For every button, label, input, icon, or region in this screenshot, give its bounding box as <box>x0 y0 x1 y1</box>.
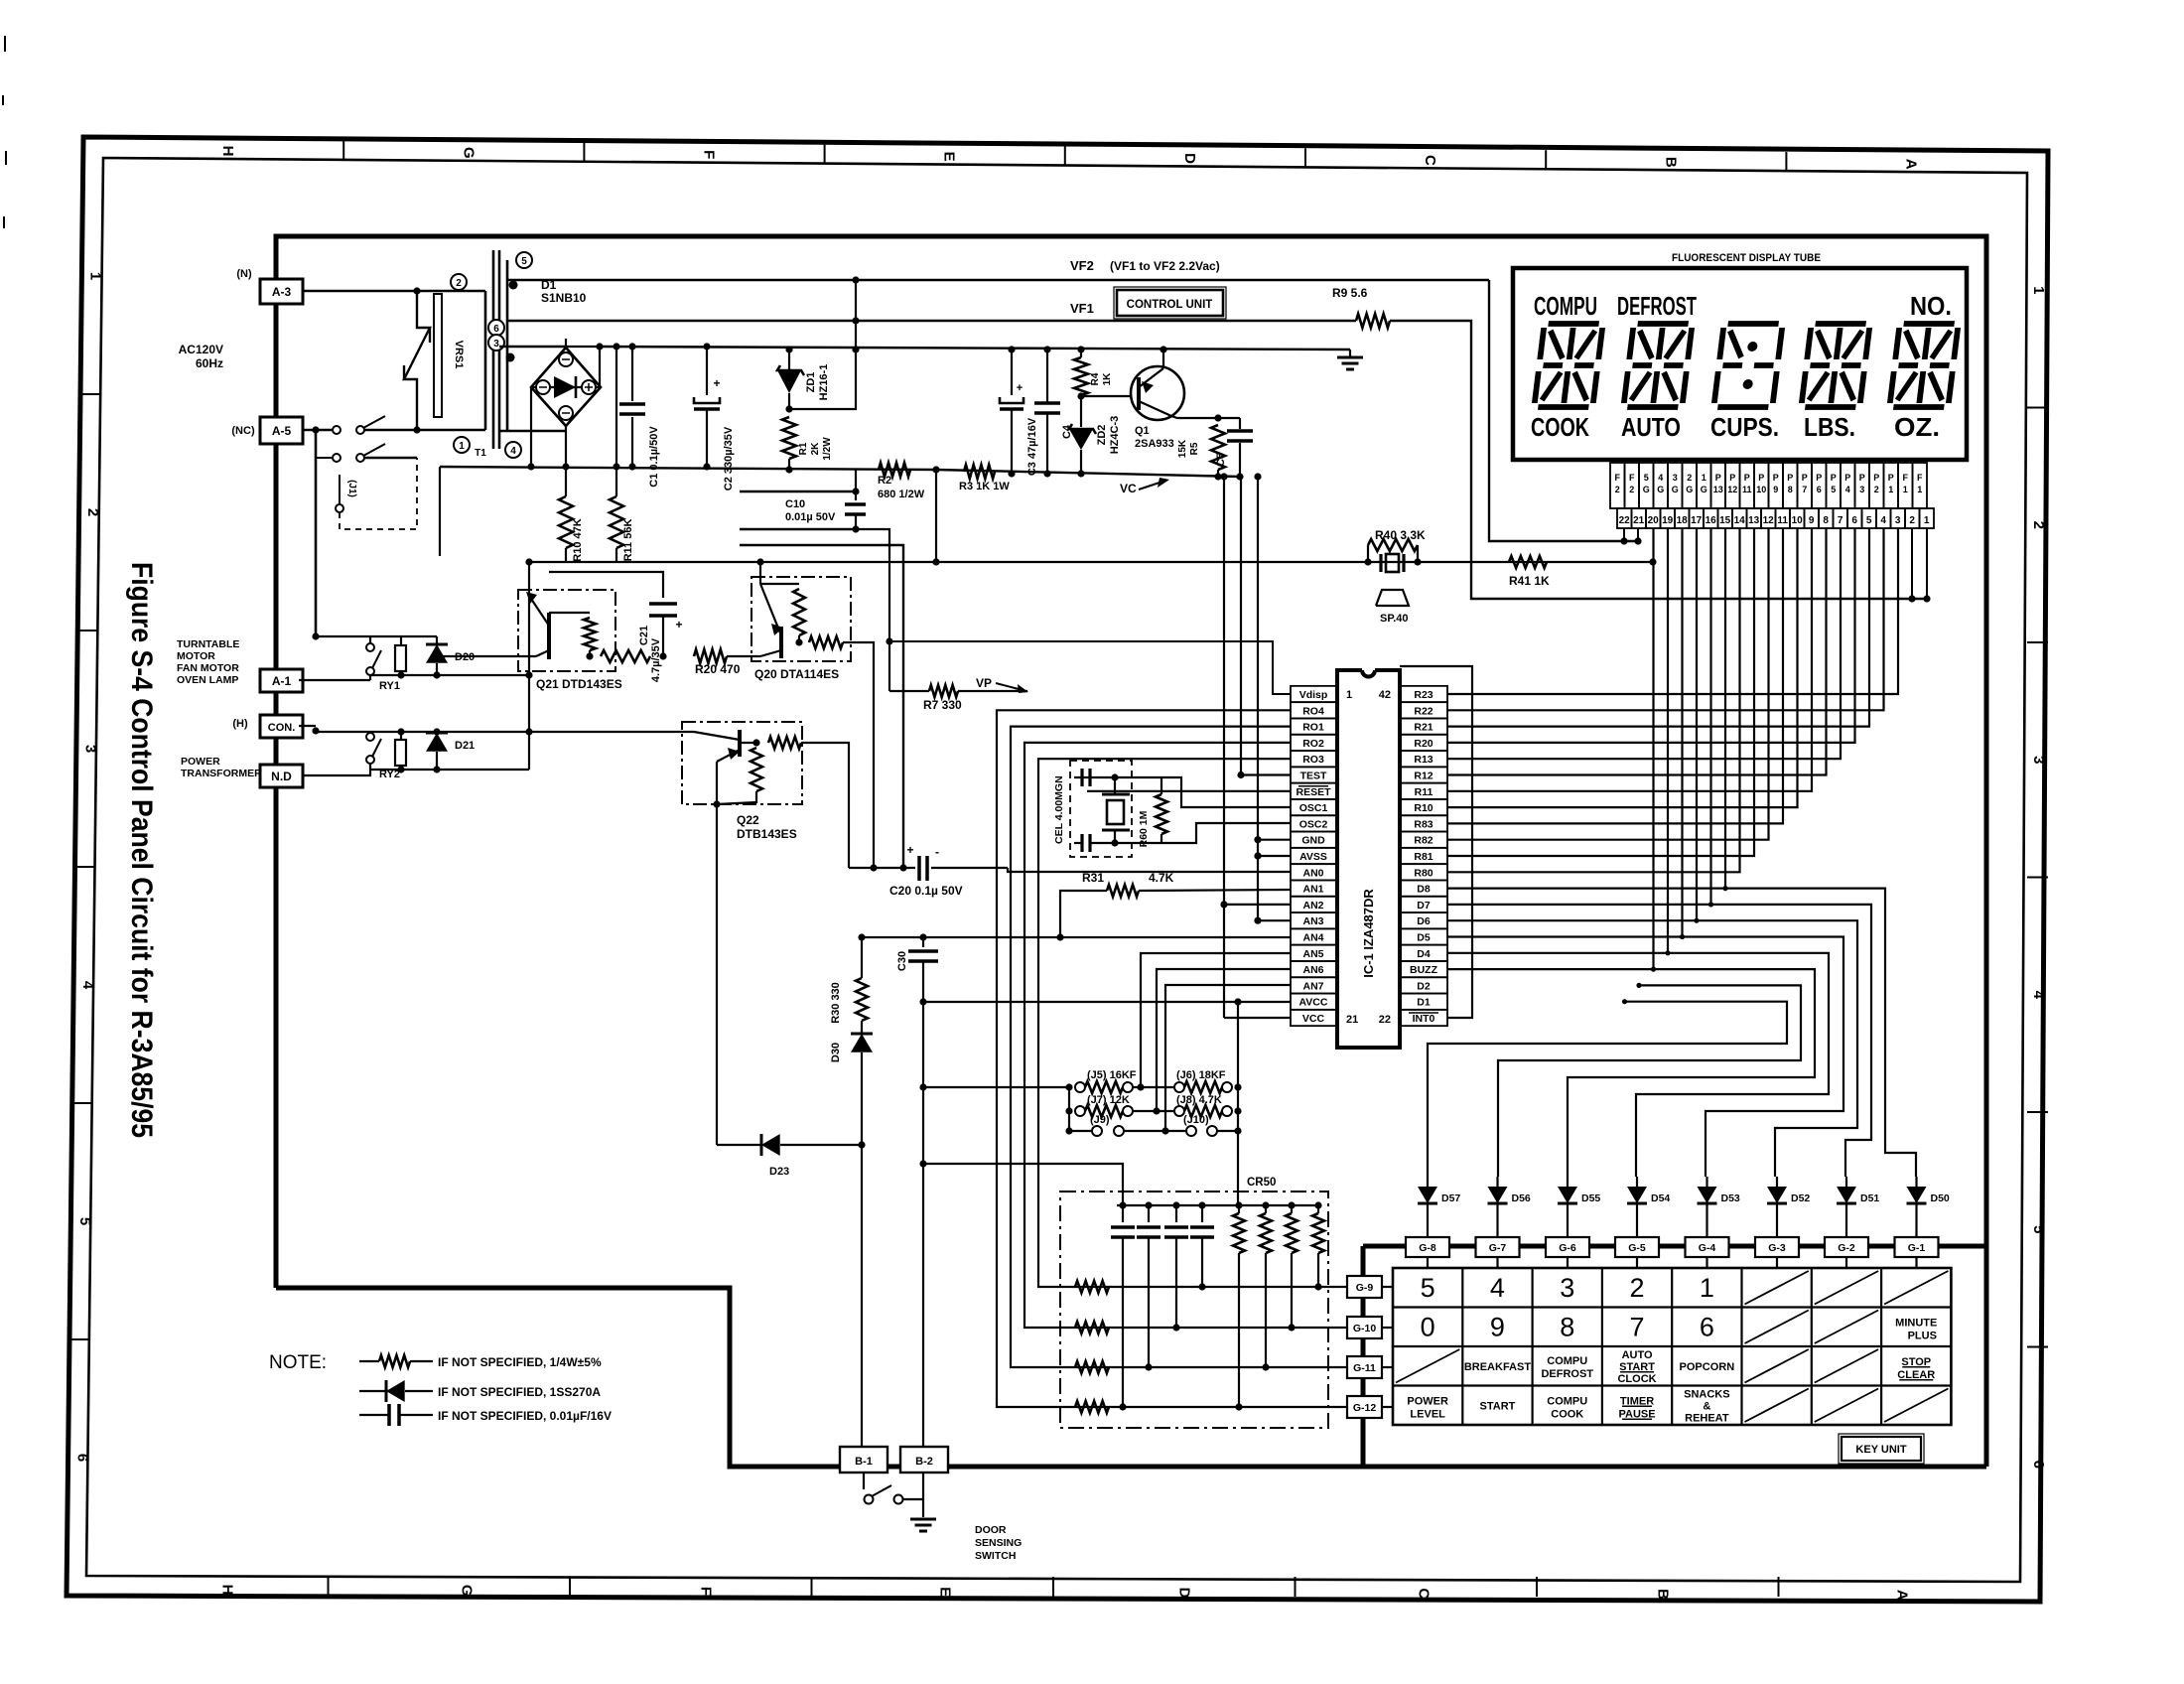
svg-text:4: 4 <box>510 446 516 457</box>
svg-text:H: H <box>219 1585 236 1596</box>
svg-text:Q21 DTD143ES: Q21 DTD143ES <box>536 677 622 691</box>
svg-text:TEST: TEST <box>1300 771 1327 782</box>
svg-text:AN3: AN3 <box>1302 915 1323 927</box>
wire RY2 bottom bus <box>370 769 529 771</box>
svg-text:DTB143ES: DTB143ES <box>737 827 797 841</box>
svg-text:G-6: G-6 <box>1559 1242 1576 1254</box>
transformer T1 primary winding <box>484 291 487 430</box>
door sensing switch <box>863 1473 865 1489</box>
wire bus IC right pins to display pins <box>1447 528 1898 694</box>
svg-text:FAN MOTOR: FAN MOTOR <box>177 662 239 674</box>
svg-text:STOP: STOP <box>1901 1356 1931 1368</box>
svg-text:A: A <box>1903 159 1920 170</box>
svg-text:1/2W: 1/2W <box>822 437 833 461</box>
svg-text:20: 20 <box>1648 515 1660 526</box>
svg-text:7: 7 <box>1838 515 1843 526</box>
svg-text:D55: D55 <box>1581 1193 1600 1204</box>
svg-text:LBS.: LBS. <box>1804 412 1855 442</box>
svg-text:R40 3.3K: R40 3.3K <box>1375 528 1426 542</box>
wire J7-J8 node to AN6 <box>1133 1110 1174 1112</box>
svg-text:RO3: RO3 <box>1302 754 1324 766</box>
svg-text:OSC1: OSC1 <box>1299 802 1328 814</box>
resistor network CR50 dashed box <box>1060 1192 1328 1428</box>
svg-text:CR50: CR50 <box>1247 1177 1276 1189</box>
svg-text:B-2: B-2 <box>915 1456 933 1468</box>
svg-text:P: P <box>1859 473 1865 483</box>
svg-text:RO1: RO1 <box>1302 722 1324 734</box>
wire Q22 output to C20 line <box>801 743 849 868</box>
svg-text:5: 5 <box>1831 485 1836 494</box>
svg-text:G-12: G-12 <box>1353 1402 1377 1414</box>
terminal N.D <box>260 765 303 787</box>
svg-text:F: F <box>1629 473 1635 483</box>
svg-text:CON.: CON. <box>268 722 296 734</box>
svg-text:LEVEL: LEVEL <box>1410 1408 1445 1420</box>
svg-text:18: 18 <box>1677 515 1689 526</box>
note resistor symbol <box>359 1360 379 1362</box>
svg-text:IF NOT SPECIFIED, 0.01µF/16V: IF NOT SPECIFIED, 0.01µF/16V <box>438 1409 612 1423</box>
svg-text:D54: D54 <box>1651 1193 1670 1204</box>
svg-text:4.7µ/35V: 4.7µ/35V <box>650 637 662 682</box>
display digit 3 <box>1713 324 1782 407</box>
svg-text:TRANSFORMER: TRANSFORMER <box>181 768 262 779</box>
svg-text:Q22: Q22 <box>737 813 759 827</box>
svg-text:22: 22 <box>1619 515 1631 526</box>
svg-text:(J7) 12K: (J7) 12K <box>1087 1094 1130 1106</box>
wire A-3 to transformer <box>303 290 485 293</box>
svg-text:C10: C10 <box>785 498 805 510</box>
svg-text:DEFROST: DEFROST <box>1541 1368 1593 1380</box>
grid driver boxes G-8 to G-1 <box>1406 1237 1449 1257</box>
svg-text:2: 2 <box>2030 521 2047 529</box>
svg-text:SNACKS: SNACKS <box>1684 1388 1729 1400</box>
note diode symbol <box>359 1390 389 1392</box>
crystal top wire and capacitor <box>1074 776 1107 778</box>
wire AN4 to R30 column <box>861 937 863 978</box>
svg-text:4: 4 <box>1658 473 1663 483</box>
svg-text:19: 19 <box>1662 515 1674 526</box>
svg-text:G-8: G-8 <box>1419 1242 1436 1254</box>
svg-text:R9 5.6: R9 5.6 <box>1332 286 1368 300</box>
svg-text:VC: VC <box>1120 482 1137 495</box>
svg-text:F: F <box>698 1587 715 1596</box>
svg-text:2: 2 <box>1687 473 1692 483</box>
VC lower rail <box>440 467 936 470</box>
svg-text:8: 8 <box>1823 515 1829 526</box>
svg-text:5: 5 <box>521 256 527 267</box>
ceramic resonator SP40 element <box>1379 554 1382 572</box>
svg-text:AVCC: AVCC <box>1299 997 1328 1009</box>
terminal circle 5 <box>516 252 532 268</box>
svg-text:6: 6 <box>493 324 499 335</box>
wire bridge left vertex down <box>530 387 532 467</box>
resistor R5 15K <box>1214 414 1221 421</box>
svg-text:COMPU: COMPU <box>1547 1395 1587 1407</box>
wire bus RO pins to key rows <box>997 710 1347 1407</box>
svg-text:(J6) 18KF: (J6) 18KF <box>1176 1069 1226 1081</box>
wire display pin 22 to VF2 <box>1623 528 1625 541</box>
svg-text:R10: R10 <box>1414 802 1433 814</box>
wire VF2 rail <box>507 279 1489 281</box>
svg-text:START: START <box>1480 1400 1516 1412</box>
vertical bus VC to VCC <box>1223 477 1225 1018</box>
diode D30 <box>861 1021 863 1035</box>
svg-text:F: F <box>701 150 718 159</box>
jumper J9 open <box>1092 1126 1102 1136</box>
svg-text:5: 5 <box>1421 1273 1435 1303</box>
svg-text:VCC: VCC <box>1302 1013 1325 1025</box>
svg-text:3: 3 <box>493 339 499 350</box>
wire display pin 21 to VF2 line <box>1637 528 1639 541</box>
CR50 capacitors <box>1122 1205 1124 1222</box>
svg-text:BREAKFAST: BREAKFAST <box>1464 1361 1532 1373</box>
svg-text:OZ.: OZ. <box>1894 412 1940 442</box>
bridge rectifier D1 S1NB10 <box>531 348 601 426</box>
svg-text:INT0: INT0 <box>1413 1013 1435 1025</box>
svg-text:15: 15 <box>1719 515 1731 526</box>
svg-text:42: 42 <box>1379 689 1391 701</box>
svg-text:5: 5 <box>2030 1225 2047 1233</box>
wire C10 side taps <box>740 491 856 492</box>
svg-text:6: 6 <box>1851 515 1857 526</box>
terminal B-1 <box>840 1447 887 1473</box>
speaker SP.40 <box>1376 590 1409 606</box>
svg-text:D: D <box>1176 1588 1193 1599</box>
resistor R3 1K 1W <box>964 465 995 479</box>
jumper left bus <box>1068 1087 1070 1131</box>
svg-text:AUTO: AUTO <box>1622 1349 1653 1361</box>
svg-text:21: 21 <box>1633 515 1645 526</box>
svg-text:Vdisp: Vdisp <box>1299 689 1328 701</box>
svg-text:C1 0.1µ/50V: C1 0.1µ/50V <box>648 426 660 488</box>
svg-text:1: 1 <box>1346 689 1352 701</box>
CR50 resistors <box>1238 1205 1240 1213</box>
svg-text:(N): (N) <box>236 268 252 280</box>
svg-text:AC120V: AC120V <box>179 343 223 356</box>
svg-text:G-5: G-5 <box>1628 1242 1646 1254</box>
svg-text:1: 1 <box>1903 485 1908 494</box>
capacitor C10 0.01u 50V <box>855 470 857 500</box>
svg-text:G-9: G-9 <box>1356 1282 1374 1294</box>
svg-text:SP.40: SP.40 <box>1380 613 1409 625</box>
svg-text:C: C <box>1416 1588 1433 1599</box>
label KEY UNIT box <box>1842 1437 1921 1461</box>
svg-text:KEY UNIT: KEY UNIT <box>1855 1444 1906 1456</box>
wire INT0 stub <box>1400 666 1472 1018</box>
svg-text:D56: D56 <box>1512 1193 1531 1204</box>
svg-text:D30: D30 <box>830 1043 842 1062</box>
relay RY2 coil <box>400 732 402 740</box>
crystal bottom wire and capacitor <box>1074 842 1082 844</box>
rail to RY1 <box>316 635 437 637</box>
svg-text:D53: D53 <box>1721 1193 1740 1204</box>
svg-text:(NC): (NC) <box>231 425 255 437</box>
svg-text:4: 4 <box>1490 1273 1505 1303</box>
svg-text:RESET: RESET <box>1296 786 1331 798</box>
svg-text:P: P <box>1744 473 1750 483</box>
svg-text:6: 6 <box>74 1454 91 1462</box>
wire N.D to RY2 <box>303 764 370 775</box>
zener diode ZD1 HZ16-1 <box>788 350 790 369</box>
svg-text:12: 12 <box>1763 515 1775 526</box>
capacitor C1 0.1u/50V <box>631 347 633 401</box>
svg-text:B: B <box>1662 157 1679 168</box>
resistor R9 5.6 <box>1356 314 1390 328</box>
wire VF1 rail <box>507 320 1356 322</box>
svg-text:D7: D7 <box>1417 900 1431 912</box>
svg-text:P: P <box>1802 473 1808 483</box>
wire RESET <box>1087 790 1291 792</box>
svg-text:G: G <box>1701 485 1707 494</box>
svg-text:13: 13 <box>1748 515 1760 526</box>
svg-text:R7 330: R7 330 <box>923 698 962 712</box>
terminal circle 3 <box>488 335 504 351</box>
svg-text:R21: R21 <box>1414 722 1433 734</box>
diode D20 <box>436 636 438 646</box>
key row series resistors <box>1075 1401 1109 1413</box>
svg-text:G-3: G-3 <box>1768 1242 1786 1254</box>
svg-text:PLUS: PLUS <box>1908 1330 1937 1341</box>
wire GND <box>1258 839 1291 841</box>
svg-text:R22: R22 <box>1414 705 1433 717</box>
wire AN3 <box>1258 919 1291 921</box>
terminal A-5 <box>260 417 303 444</box>
wire transformer to bridge bottom <box>499 430 566 432</box>
svg-text:7: 7 <box>1630 1312 1645 1341</box>
svg-text:D23: D23 <box>769 1166 789 1178</box>
jumper right bus <box>1237 1002 1239 1205</box>
jumper J5 16KF <box>1075 1082 1085 1092</box>
svg-text:G-2: G-2 <box>1838 1242 1855 1254</box>
wire VF2 drop to display pin 22 <box>1489 280 1638 541</box>
vertical bus C5 to TEST <box>1240 477 1242 775</box>
svg-text:11: 11 <box>1777 515 1788 526</box>
wire VF1 to display pin 1 <box>1390 321 1927 599</box>
svg-text:C20 0.1µ 50V: C20 0.1µ 50V <box>889 884 963 898</box>
svg-text:GND: GND <box>1301 835 1325 847</box>
transformer polarity dots <box>509 281 518 290</box>
svg-text:(VF1 to VF2 2.2Vac): (VF1 to VF2 2.2Vac) <box>1110 259 1220 273</box>
svg-text:R1: R1 <box>798 442 809 455</box>
svg-text:A-1: A-1 <box>272 674 292 688</box>
svg-text:G-7: G-7 <box>1489 1242 1507 1254</box>
svg-text:CUPS.: CUPS. <box>1710 412 1779 442</box>
svg-text:AUTO: AUTO <box>1621 412 1681 442</box>
svg-text:5: 5 <box>76 1217 93 1225</box>
jumper J6 18KF <box>1174 1082 1184 1092</box>
svg-text:R30 330: R30 330 <box>830 982 842 1024</box>
wire Q21 to C21 top <box>549 572 663 598</box>
svg-text:D6: D6 <box>1417 915 1431 927</box>
svg-text:SENSING: SENSING <box>975 1537 1022 1549</box>
svg-text:2: 2 <box>1630 1273 1645 1303</box>
svg-text:COOK: COOK <box>1531 412 1589 442</box>
terminal circle 6 <box>488 320 504 336</box>
svg-text:AN6: AN6 <box>1302 964 1323 976</box>
svg-text:ZD1: ZD1 <box>805 372 817 393</box>
svg-text:4: 4 <box>1845 485 1850 494</box>
IC left pin boxes <box>1291 686 1337 702</box>
svg-text:+: + <box>906 843 913 857</box>
svg-text:8: 8 <box>1560 1312 1574 1341</box>
wire Q22 emitter down to D23 <box>716 804 718 1145</box>
IC right pin boxes <box>1400 686 1447 702</box>
svg-text:D1: D1 <box>1417 997 1431 1009</box>
svg-text:AN4: AN4 <box>1302 932 1323 944</box>
relay RY1 contact <box>299 679 370 681</box>
svg-text:D51: D51 <box>1860 1193 1879 1204</box>
svg-text:(H): (H) <box>232 718 248 730</box>
wire A-5 to transformer <box>303 429 332 432</box>
svg-text:D8: D8 <box>1417 884 1431 896</box>
resistor R4 1K <box>1080 350 1082 357</box>
svg-text:A-5: A-5 <box>272 424 292 438</box>
svg-text:-: - <box>935 845 939 859</box>
svg-text:(J5) 16KF: (J5) 16KF <box>1087 1069 1137 1081</box>
svg-text:IC-1 IZA487DR: IC-1 IZA487DR <box>1361 889 1376 978</box>
svg-text:R20: R20 <box>1414 738 1433 750</box>
svg-text:HZ4C-3: HZ4C-3 <box>1109 416 1121 455</box>
wire R4 to Q1 base <box>1081 395 1132 397</box>
svg-text:NOTE:: NOTE: <box>269 1352 327 1373</box>
CON rail to Q22 base <box>316 731 694 733</box>
svg-text:R60 1M: R60 1M <box>1138 810 1150 847</box>
svg-text:VF2: VF2 <box>1070 258 1094 273</box>
resistor R11 56K <box>615 347 617 496</box>
svg-text:5: 5 <box>1866 515 1872 526</box>
svg-text:3: 3 <box>1673 473 1678 483</box>
svg-text:(J9): (J9) <box>1090 1114 1110 1126</box>
wire Q21 emitter vertical <box>528 562 530 596</box>
display pin connector upper row <box>1610 463 1625 508</box>
wire mid feed to C20 <box>740 545 903 868</box>
svg-text:Q1: Q1 <box>1135 425 1150 437</box>
svg-text:TIMER: TIMER <box>1620 1395 1654 1407</box>
svg-text:C2 330µ/35V: C2 330µ/35V <box>723 426 735 491</box>
wire A-5 node down to relay section <box>315 430 318 636</box>
relay RY2 contact <box>299 725 316 727</box>
svg-text:IF NOT SPECIFIED, 1/4W±5%: IF NOT SPECIFIED, 1/4W±5% <box>438 1355 602 1369</box>
svg-text:P: P <box>1844 473 1850 483</box>
svg-text:1: 1 <box>459 441 465 452</box>
wire bridge top vertex to V+ rail <box>565 339 567 348</box>
svg-text:R3 1K 1W: R3 1K 1W <box>959 481 1010 492</box>
svg-text:R23: R23 <box>1414 689 1433 701</box>
wire TEST <box>1241 773 1291 775</box>
display digit 1 <box>1534 324 1602 407</box>
svg-text:G-11: G-11 <box>1353 1362 1376 1374</box>
capacitor C5 <box>1239 418 1241 429</box>
jumper J10 open <box>1186 1126 1196 1136</box>
svg-text:E: E <box>941 152 958 162</box>
svg-text:COOK: COOK <box>1551 1408 1583 1420</box>
wire D23 junction to B-1 <box>861 1145 863 1447</box>
crystal element <box>1107 800 1124 824</box>
svg-text:G-1: G-1 <box>1908 1242 1926 1254</box>
svg-text:(J1): (J1) <box>346 480 357 497</box>
outer border frame <box>67 137 2048 1602</box>
svg-text:10: 10 <box>1756 485 1766 494</box>
svg-text:E: E <box>937 1587 954 1597</box>
terminal A-3 <box>260 279 303 304</box>
transistor Q22 DTB143ES block <box>682 722 802 804</box>
display digit 4 <box>1801 324 1869 407</box>
svg-text:2K: 2K <box>810 442 821 456</box>
transformer T1 core <box>492 250 495 449</box>
svg-text:9: 9 <box>1490 1312 1505 1341</box>
svg-text:1: 1 <box>1702 473 1706 483</box>
svg-text:D4: D4 <box>1417 948 1431 960</box>
wire C20 to AN0 <box>1008 868 1291 872</box>
svg-text:3: 3 <box>81 745 98 753</box>
svg-text:&: & <box>1703 1400 1710 1412</box>
svg-text:G: G <box>1672 485 1679 494</box>
CR50 top rail <box>1117 1204 1318 1206</box>
svg-text:CLOCK: CLOCK <box>1617 1373 1656 1385</box>
wire ZD1 junction to VF2 rail <box>789 280 856 409</box>
scan artifact marks at left edge <box>4 36 6 52</box>
svg-text:6: 6 <box>2030 1461 2047 1469</box>
svg-text:4: 4 <box>2030 991 2047 1000</box>
svg-text:OVEN LAMP: OVEN LAMP <box>177 674 238 686</box>
svg-text:D: D <box>1181 153 1198 164</box>
varistor VRS1 <box>404 291 430 430</box>
transistor Q20 DTA114ES block <box>751 577 851 661</box>
svg-text:4: 4 <box>79 981 96 990</box>
wire AVSS <box>1258 855 1291 857</box>
svg-text:IF NOT SPECIFIED, 1SS270A: IF NOT SPECIFIED, 1SS270A <box>438 1385 601 1399</box>
display connector stubs <box>1616 460 1618 463</box>
svg-text:AVSS: AVSS <box>1299 851 1327 863</box>
svg-text:BUZZ: BUZZ <box>1410 964 1438 976</box>
jumper J8 4.7K <box>1174 1106 1184 1116</box>
svg-text:ZD2: ZD2 <box>1096 425 1108 446</box>
resistor R60 1M <box>1160 777 1162 794</box>
svg-text:P: P <box>1715 473 1721 483</box>
display digit 5 <box>1889 324 1958 407</box>
svg-text:N.D: N.D <box>271 770 292 783</box>
svg-text:D21: D21 <box>455 740 475 752</box>
svg-text:P: P <box>1888 473 1894 483</box>
resistor R31 4.7K <box>1060 891 1107 937</box>
terminal CON. <box>260 715 303 738</box>
svg-text:POPCORN: POPCORN <box>1680 1361 1735 1373</box>
svg-text:G: G <box>1686 485 1693 494</box>
diode D23 <box>717 1144 760 1146</box>
svg-text:F: F <box>1902 473 1908 483</box>
wire C30 to B-2 <box>922 1002 924 1447</box>
capacitor C2 330u/35V electrolytic <box>706 347 708 395</box>
svg-text:COMPU: COMPU <box>1534 291 1597 321</box>
svg-text:B: B <box>1655 1589 1672 1600</box>
svg-text:0: 0 <box>1421 1312 1435 1341</box>
wire Q1 collector to R5 C5 <box>1171 416 1240 418</box>
capacitor C20 0.1u 50V <box>849 867 915 869</box>
svg-text:G: G <box>460 147 477 159</box>
svg-text:R20 470: R20 470 <box>695 662 741 676</box>
svg-text:2: 2 <box>1629 485 1634 494</box>
wire VCC <box>1224 1017 1291 1019</box>
svg-text:DEFROST: DEFROST <box>1617 291 1697 321</box>
svg-text:+: + <box>675 618 682 631</box>
svg-text:P: P <box>1816 473 1822 483</box>
zener diode ZD2 HZ4C-3 <box>1077 392 1084 399</box>
svg-text:D52: D52 <box>1791 1193 1810 1204</box>
wire Q20 emitter to rail <box>759 562 761 584</box>
svg-text:16: 16 <box>1706 515 1717 526</box>
svg-text:R83: R83 <box>1414 818 1433 830</box>
svg-text:R5: R5 <box>1189 442 1200 455</box>
